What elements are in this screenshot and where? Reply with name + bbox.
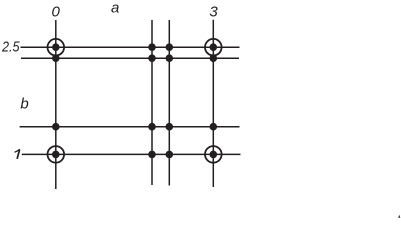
junction dot V3xH2 (166, 54, 174, 62)
wire vertical line 0 (left) (55, 20, 57, 189)
svg-text:0: 0 (52, 3, 61, 20)
junction dot V1xH3 (52, 123, 60, 131)
junction dot V2xH2 (148, 54, 156, 62)
svg-text:2.5: 2.5 (1, 39, 20, 56)
node 0/1 circled junction (48, 146, 65, 163)
node 3/1 circled junction (205, 146, 222, 163)
wire vertical inner right (168, 20, 170, 186)
wire horizontal line 1 (bottom) (22, 153, 241, 155)
wire horizontal line 2.5 (top) (21, 46, 240, 48)
junction dot V4xH2 (210, 54, 218, 62)
wire horizontal inner bottom (20, 126, 240, 128)
junction dot V2xH4 (148, 151, 156, 159)
wire vertical inner left (151, 20, 153, 185)
svg-text:b: b (20, 95, 28, 112)
wire horizontal inner top (21, 57, 239, 59)
svg-text:3: 3 (209, 4, 218, 21)
svg-text:a: a (111, 0, 119, 17)
label 1 (15, 149, 20, 159)
node 0/2.5 circled junction (48, 39, 65, 56)
junction dot V3xH3 (166, 123, 174, 131)
junction dot V3xH4 (166, 151, 174, 159)
junction dot V4xH3 (210, 123, 218, 131)
speck bottom-right (398, 215, 400, 218)
junction dot V2xH3 (148, 123, 156, 131)
junction dot V1xH2 (52, 54, 60, 62)
junction dot V2xH1 (148, 43, 156, 51)
junction dot V3xH1 (166, 43, 174, 51)
node 3/2.5 circled junction (205, 39, 222, 56)
wire vertical line 3 (right) (212, 20, 214, 187)
